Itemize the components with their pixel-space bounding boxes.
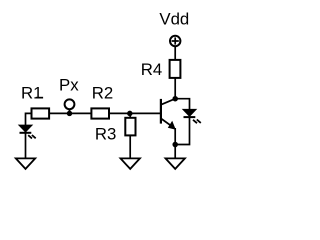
wire: main horizontal net from left corner to transistor base	[26, 112, 161, 114]
wire: LED branch bottom segment	[175, 117, 189, 145]
wire: R3 branch vertical (junction down to ground)	[129, 113, 131, 159]
label R1	[21, 84, 43, 103]
ground (left, under D1)	[16, 158, 35, 169]
resistor R4	[170, 60, 181, 78]
transistor Q1 (NPN)	[161, 99, 175, 145]
ground (right, under emitter)	[166, 158, 185, 169]
wire: Px terminal stem	[69, 109, 71, 114]
resistor R3	[125, 118, 135, 136]
resistor R2	[91, 108, 109, 118]
LED D2 (collector-emitter branch)	[184, 110, 201, 123]
svg-text:Px: Px	[59, 76, 79, 95]
svg-text:R2: R2	[92, 84, 113, 103]
photodiode D1 (left LED to ground)	[20, 126, 36, 139]
svg-text:R1: R1	[21, 84, 42, 103]
junction dot at emitter node	[172, 142, 178, 148]
wire: LED branch top segment	[175, 99, 189, 110]
wire: Vdd rail vertical (terminal through R4 to collector node)	[174, 47, 176, 99]
ground (middle, under R3)	[121, 158, 140, 169]
wire: left branch vertical (R1 left lead down to ground)	[25, 113, 27, 159]
junction dot at Px node	[67, 111, 73, 117]
svg-text:R4: R4	[141, 60, 162, 79]
svg-text:R3: R3	[95, 125, 116, 144]
svg-text:Vdd: Vdd	[159, 10, 189, 29]
terminal Px: open circle	[65, 99, 75, 109]
wire: emitter node down to ground	[174, 145, 176, 159]
junction dot at R2/R3/base node	[127, 111, 133, 117]
junction dot at collector node	[172, 96, 178, 102]
power terminal Vdd: circle with plus	[170, 36, 180, 46]
resistor R1	[32, 108, 50, 118]
